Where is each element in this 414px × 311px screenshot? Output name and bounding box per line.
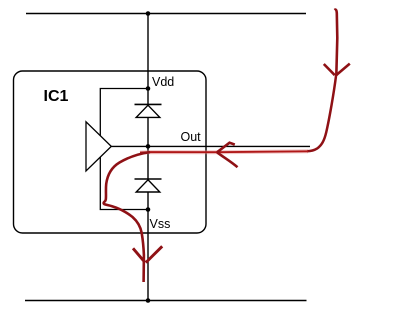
red thin segment halo (jpeg-style glow) (140, 151, 308, 152)
svg-text:Out: Out (181, 130, 202, 144)
junction node: Vdd branch (146, 86, 151, 91)
diode D1 triangle (anode, pointing up) (136, 105, 160, 117)
output wire from buffer to Out pin (111, 145, 310, 147)
junction node: top rail / vertical wire (146, 11, 151, 16)
buffer amplifier triangle (IC1 output stage) (86, 122, 111, 171)
bottom power rail (Vss) wire (25, 300, 307, 302)
red current path: incoming wire from top right (335, 10, 338, 76)
svg-text:IC1: IC1 (44, 88, 69, 105)
svg-text:Vss: Vss (150, 217, 171, 231)
diode D1 (upper clamp to Vdd): cathode bar (135, 103, 162, 105)
wire from Vdd node to buffer positive supply (100, 89, 148, 137)
red arrowhead pointing down at top right (324, 64, 350, 76)
junction node: output / Out wire (146, 144, 151, 149)
diode D2 triangle (anode, pointing up) (136, 180, 160, 192)
svg-text:Vdd: Vdd (152, 75, 174, 89)
red horizontal segment along Out wire (140, 151, 218, 154)
junction node: bottom rail / vertical wire (146, 298, 151, 303)
red arrowhead pointing down above bottom rail (133, 246, 162, 262)
red thin segment right of arrowhead on Out wire (218, 150, 308, 153)
main vertical wire (output net) (147, 14, 149, 301)
red current path: curve from arrowhead down into Out wire (307, 76, 336, 151)
diode D2 (lower clamp to Vss): cathode bar (135, 178, 162, 180)
wire from buffer negative supply to Vss node (100, 157, 148, 210)
red current path: curve from Out node down through Vss to bottom (104, 152, 150, 282)
top power rail (Vdd) wire (26, 13, 306, 15)
junction node: Vss branch (146, 207, 151, 212)
IC1 package outline (14, 71, 207, 233)
red arrowhead pointing left on Out wire (217, 143, 238, 168)
